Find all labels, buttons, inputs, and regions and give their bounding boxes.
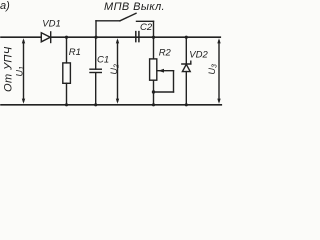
wire: switch branch left horizontal [96, 20, 120, 22]
wire: switch branch right horizontal [137, 20, 154, 22]
voltage arrow U3 [217, 38, 220, 104]
label U2 [109, 64, 121, 75]
svg-text:От УПЧ: От УПЧ [3, 46, 15, 92]
svg-text:C2: C2 [140, 22, 153, 33]
node: C2 right / R2 top junction [152, 36, 155, 39]
wiper of R2 (arrow into right side, tied to lower lead) [154, 69, 174, 92]
svg-text:C1: C1 [97, 55, 109, 66]
zener diode VD2 [182, 37, 191, 105]
capacitor C2 [136, 32, 139, 42]
resistor R1 [63, 37, 71, 105]
node: R1 top junction [65, 36, 68, 39]
node: C1 bottom junction [94, 103, 97, 106]
node: wiper tie junction on R2 lower lead [152, 90, 155, 93]
node: C1 / switch-branch top junction [94, 36, 97, 39]
node: R2 bottom junction [152, 103, 155, 106]
svg-text:R1: R1 [69, 47, 81, 58]
wire: bottom rail [1, 104, 221, 106]
diode VD1 [41, 32, 50, 43]
node: R1 bottom junction [65, 103, 68, 106]
label U1 [15, 66, 27, 77]
voltage arrow U2 [116, 38, 119, 104]
label Ot UPCh (input from IF amp) [3, 46, 15, 92]
svg-text:R2: R2 [159, 48, 172, 59]
svg-text:а): а) [0, 0, 10, 12]
wire: switch branch drop to C2 right node [153, 21, 155, 37]
node: VD2 bottom junction [185, 103, 188, 106]
svg-text:МПВ Выкл.: МПВ Выкл. [104, 1, 165, 13]
svg-text:VD1: VD1 [42, 19, 60, 30]
potentiometer R2 [150, 37, 157, 105]
wire: switch branch riser from C1 node [95, 21, 97, 37]
voltage arrow U1 [22, 38, 25, 104]
wire: top rail from R2 node to right end [154, 36, 221, 38]
node: VD2 top junction [185, 36, 188, 39]
label U3 [207, 64, 219, 75]
capacitor C1 [90, 37, 101, 105]
wire: top rail left segment (input to VD1) [1, 36, 41, 38]
switch MPV (open blade) [120, 13, 136, 20]
wire: top rail from VD1 to R2 node [51, 36, 154, 38]
svg-text:VD2: VD2 [189, 49, 208, 60]
